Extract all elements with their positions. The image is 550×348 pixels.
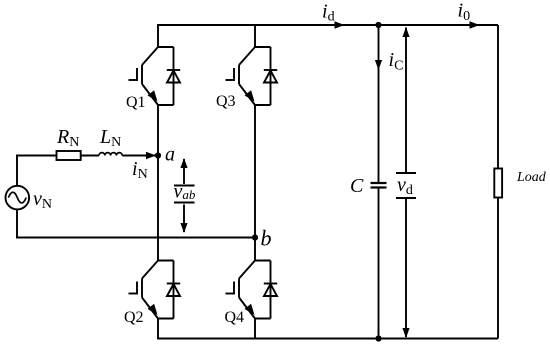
wire load branch upper bbox=[497, 25, 499, 169]
current arrow i_0 bbox=[470, 21, 480, 29]
svg-text:C: C bbox=[350, 175, 364, 197]
wire source bottom to node b bbox=[16, 237, 255, 239]
voltage arrow vab lower segment bbox=[183, 205, 185, 233]
ac source sine symbol bbox=[8, 192, 26, 203]
ac source vN circle bbox=[5, 186, 29, 210]
node a bbox=[155, 152, 161, 158]
voltage arrow vd lower segment bbox=[405, 198, 407, 337]
svg-text:vd: vd bbox=[397, 174, 413, 198]
svg-text:a: a bbox=[165, 144, 175, 166]
voltage arrow vd bottom tick bbox=[396, 197, 416, 199]
svg-text:iN: iN bbox=[132, 158, 148, 182]
node junction top bus bbox=[375, 22, 381, 28]
node b bbox=[252, 234, 258, 240]
wire source left vertical bbox=[16, 156, 18, 238]
wire left bridge leg lower stub bbox=[157, 319, 159, 340]
wire resistor to inductor bbox=[81, 155, 99, 157]
voltage arrow vd top tick bbox=[396, 172, 416, 174]
wire bottom dc bus bbox=[158, 338, 498, 340]
svg-text:iC: iC bbox=[389, 49, 404, 73]
voltage arrow vab top tick bbox=[174, 185, 195, 187]
svg-text:vN: vN bbox=[33, 188, 52, 212]
wire left bridge leg middle segment bbox=[157, 105, 159, 261]
load resistor bbox=[494, 169, 502, 198]
svg-text:RN: RN bbox=[56, 126, 79, 150]
svg-text:Q4: Q4 bbox=[225, 309, 245, 326]
svg-text:Q3: Q3 bbox=[216, 93, 236, 110]
svg-text:id: id bbox=[322, 1, 335, 25]
wire right bridge leg lower stub bbox=[254, 319, 256, 340]
wire top dc bus bbox=[158, 24, 498, 26]
voltage arrow vab bottom tick bbox=[174, 202, 195, 204]
wire load branch lower bbox=[497, 198, 499, 339]
transistor Q3 bbox=[226, 47, 278, 105]
wire right bridge leg middle segment bbox=[254, 105, 256, 261]
resistor RN bbox=[57, 151, 81, 160]
wire input top segment bbox=[16, 155, 57, 157]
wire capacitor branch upper bbox=[378, 25, 380, 183]
svg-text:Q2: Q2 bbox=[124, 309, 144, 326]
wire left bridge leg upper stub bbox=[157, 24, 159, 47]
voltage arrow vab upper segment bbox=[183, 159, 185, 184]
inductor LN bbox=[99, 153, 122, 156]
svg-text:LN: LN bbox=[99, 126, 121, 150]
wire inductor to node a bbox=[122, 155, 158, 157]
current arrow iC bbox=[375, 60, 382, 70]
transistor Q1 bbox=[129, 47, 181, 105]
svg-text:i0: i0 bbox=[458, 0, 471, 24]
node junction bottom bus bbox=[375, 335, 381, 341]
current arrow iN bbox=[146, 152, 156, 160]
current arrow i_d bbox=[335, 21, 345, 29]
wire right bridge leg upper stub bbox=[254, 24, 256, 47]
transistor Q2 bbox=[129, 261, 181, 319]
svg-text:Load: Load bbox=[516, 170, 547, 185]
capacitor C plates bbox=[371, 183, 387, 188]
svg-text:b: b bbox=[261, 226, 272, 251]
svg-text:Q1: Q1 bbox=[126, 94, 146, 111]
transistor Q4 bbox=[226, 261, 278, 319]
voltage arrow vd upper segment bbox=[405, 28, 407, 174]
wire capacitor branch lower bbox=[378, 188, 380, 339]
